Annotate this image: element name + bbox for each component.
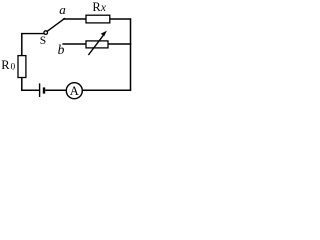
wire top-left horizontal to switch [21,33,44,35]
svg-text:a: a [59,2,66,17]
svg-text:R: R [1,58,10,72]
resistor Rx [86,15,110,23]
wire left vertical upper [21,33,23,55]
wire node a to Rx [63,18,86,20]
wire ammeter to bottom-right [82,89,131,91]
battery [40,83,46,97]
label R0 [1,58,15,72]
wire node b to rheostat [62,43,86,45]
label S [40,35,46,47]
label Rx [92,0,107,14]
rheostat R (variable resistor) [86,31,108,55]
wire Rx to right vertical [110,18,131,20]
wire bottom-left to battery [21,89,39,91]
svg-text:x: x [100,2,107,14]
wire battery to ammeter [45,89,66,91]
wire right vertical [130,18,132,90]
switch S [44,18,65,34]
ammeter A [66,83,82,99]
svg-text:S: S [40,35,46,47]
wire rheostat to right vertical [108,43,131,45]
wire left vertical lower [21,78,23,92]
resistor R0 [18,56,26,78]
svg-text:0: 0 [11,62,16,72]
svg-text:A: A [70,84,79,98]
node a [59,2,66,17]
node b [58,42,65,57]
